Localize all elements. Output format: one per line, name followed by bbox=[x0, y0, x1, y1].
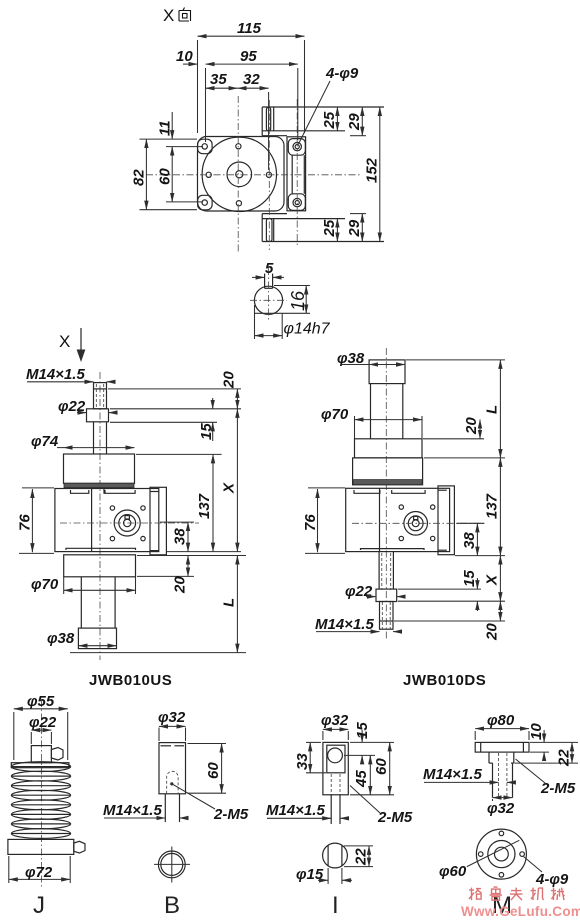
svg-text:φ55: φ55 bbox=[27, 693, 55, 710]
worm wheel housing circle bbox=[202, 137, 276, 211]
svg-text:4-φ9: 4-φ9 bbox=[535, 871, 569, 888]
gland seal hatched bbox=[353, 480, 422, 485]
svg-text:22: 22 bbox=[353, 848, 370, 866]
dim 11 left bbox=[157, 112, 174, 139]
threaded rod tip bbox=[380, 602, 394, 630]
protection tube phi74 bbox=[64, 454, 135, 483]
dim 152 right bbox=[364, 107, 381, 242]
dim phi14h7 bbox=[255, 305, 331, 339]
svg-text:M14×1.5: M14×1.5 bbox=[26, 366, 85, 383]
dim 76 left bbox=[302, 488, 345, 554]
dim phi80 bbox=[475, 712, 529, 740]
svg-text:45: 45 bbox=[353, 770, 370, 788]
dim 60 bbox=[373, 742, 390, 794]
svg-text:60: 60 bbox=[157, 168, 174, 185]
leader 2-M5 bbox=[516, 759, 576, 797]
hub stem bbox=[493, 753, 513, 798]
side window bbox=[327, 745, 345, 773]
dim phi70 bbox=[321, 406, 422, 439]
lower tube bbox=[81, 577, 115, 628]
svg-text:38: 38 bbox=[172, 528, 189, 545]
dim phi32 bbox=[158, 709, 186, 741]
svg-text:4-φ9: 4-φ9 bbox=[325, 65, 359, 82]
worm centerline bbox=[352, 522, 486, 524]
center hole bbox=[236, 171, 243, 178]
cover plate hole bottom bbox=[293, 198, 301, 206]
dim 76 left bbox=[17, 488, 54, 554]
thread exit lines below bbox=[331, 795, 340, 824]
top plate bbox=[11, 763, 69, 768]
dim phi32 bbox=[321, 712, 349, 740]
bottom cap phi38 bbox=[78, 628, 116, 649]
dim 20 lower right bbox=[172, 556, 189, 595]
collar phi22 bbox=[87, 409, 109, 422]
dim 82 left bbox=[131, 139, 197, 210]
svg-text:φ32: φ32 bbox=[487, 800, 515, 817]
dim 35 / 32 bbox=[206, 71, 269, 170]
label 4-phi9 with leader bbox=[299, 65, 359, 144]
key notch on worm bore bbox=[414, 516, 418, 519]
flange plate bbox=[475, 742, 529, 752]
screw axis centerline bbox=[385, 348, 387, 640]
label M14x1.5 bbox=[266, 802, 347, 819]
dim phi70 bbox=[31, 576, 136, 594]
svg-text:2-M5: 2-M5 bbox=[540, 780, 576, 797]
bolt hole top bbox=[236, 144, 241, 149]
svg-text:M14×1.5: M14×1.5 bbox=[103, 802, 162, 819]
centerline cover plate bbox=[296, 99, 298, 247]
svg-text:I: I bbox=[332, 892, 339, 919]
svg-text:φ80: φ80 bbox=[487, 712, 515, 729]
key bbox=[265, 274, 273, 289]
svg-text:M14×1.5: M14×1.5 bbox=[266, 802, 325, 819]
bolt hole left bbox=[206, 172, 211, 177]
bottom view flange face bbox=[476, 829, 526, 879]
cover plate hole top bbox=[293, 142, 301, 150]
hub upper bbox=[489, 752, 514, 763]
svg-text:X: X bbox=[221, 482, 238, 494]
side cover plate right bbox=[438, 486, 454, 555]
right extension lines bbox=[344, 742, 394, 794]
svg-text:152: 152 bbox=[364, 157, 381, 183]
boss bolt holes bbox=[110, 506, 114, 510]
dim phi22 bbox=[29, 714, 57, 744]
svg-text:L: L bbox=[221, 598, 238, 607]
svg-text:M14×1.5: M14×1.5 bbox=[315, 616, 374, 633]
dim phi74 bbox=[31, 433, 135, 450]
gearbox body bbox=[55, 489, 159, 552]
dim 22 bbox=[344, 846, 373, 867]
svg-text:10: 10 bbox=[176, 48, 193, 65]
dim 38 right bbox=[172, 522, 189, 552]
svg-text:60: 60 bbox=[373, 758, 390, 775]
cross hole bbox=[328, 748, 343, 763]
dim 137 right bbox=[196, 454, 213, 551]
svg-text:JWB010DS: JWB010DS bbox=[403, 672, 486, 689]
rod below collar bbox=[94, 422, 107, 454]
dim phi55 bbox=[14, 693, 68, 760]
centerline vertical main bbox=[237, 96, 239, 252]
svg-text:15: 15 bbox=[461, 570, 478, 587]
svg-text:76: 76 bbox=[17, 514, 34, 531]
svg-text:φ72: φ72 bbox=[25, 864, 53, 881]
threaded rod top bbox=[94, 383, 107, 409]
svg-text:φ38: φ38 bbox=[47, 630, 75, 647]
svg-text:φ22: φ22 bbox=[345, 583, 373, 600]
dim 45 bbox=[353, 755, 370, 794]
bolt hole bottom bbox=[236, 201, 241, 206]
dim phi22 bbox=[58, 398, 117, 415]
label M14x1.5 bbox=[26, 366, 113, 383]
svg-text:L: L bbox=[484, 405, 501, 414]
right extension lines bbox=[394, 360, 505, 621]
svg-text:J: J bbox=[33, 892, 45, 919]
upper tube bbox=[371, 384, 403, 439]
clamp screw bottom bbox=[74, 841, 85, 853]
svg-text:2-M5: 2-M5 bbox=[377, 809, 413, 826]
centerlines bbox=[268, 268, 270, 322]
svg-text:20: 20 bbox=[463, 417, 480, 435]
dim 15 right bbox=[461, 570, 478, 611]
worm boss plate bbox=[92, 489, 104, 552]
dim 115 bbox=[198, 20, 305, 133]
gland seal ring hatched bbox=[64, 483, 134, 487]
thread exit lines below bbox=[165, 794, 179, 822]
dim 25 bottom right bbox=[321, 219, 338, 242]
bottom view circle bbox=[323, 843, 348, 868]
svg-text:35: 35 bbox=[210, 71, 227, 88]
worm boss circles bbox=[114, 510, 140, 536]
upper flange phi70 bbox=[355, 439, 423, 458]
dim 38 right bbox=[461, 523, 478, 555]
svg-text:φ60: φ60 bbox=[439, 863, 467, 880]
corner hole top-left bbox=[202, 144, 207, 149]
svg-text:5: 5 bbox=[265, 260, 274, 277]
dim X right bbox=[484, 556, 501, 602]
watermark bbox=[469, 887, 565, 900]
leader phi60 bbox=[439, 840, 519, 880]
svg-text:22: 22 bbox=[556, 749, 573, 767]
svg-text:B: B bbox=[164, 892, 180, 919]
svg-text:φ74: φ74 bbox=[31, 433, 59, 450]
svg-text:95: 95 bbox=[240, 48, 257, 65]
label M14x1.5 bbox=[103, 802, 186, 819]
svg-text:2-M5: 2-M5 bbox=[213, 806, 249, 823]
keyway slot lower bbox=[266, 219, 272, 242]
side cover plate right bbox=[287, 137, 306, 211]
right extension lines bbox=[70, 389, 246, 653]
dim 16 bbox=[255, 286, 311, 314]
svg-text:φ70: φ70 bbox=[321, 406, 349, 423]
leader 4-phi9 bbox=[524, 857, 569, 889]
lower rod bbox=[379, 552, 393, 590]
svg-text:20: 20 bbox=[172, 576, 189, 594]
svg-text:JWB010US: JWB010US bbox=[89, 672, 172, 689]
worm shaft lower end bbox=[262, 214, 384, 242]
bolt hole right bbox=[266, 172, 271, 177]
lower flange phi70 bbox=[64, 555, 136, 577]
dim 29 bottom right bbox=[346, 214, 366, 242]
dim 5 bbox=[252, 260, 284, 277]
bottom view circle bbox=[154, 847, 190, 883]
dim L right bbox=[221, 556, 238, 653]
bellows folds bbox=[11, 762, 70, 839]
dim phi15 bbox=[296, 866, 352, 884]
svg-text:X: X bbox=[163, 6, 174, 25]
svg-text:φ70: φ70 bbox=[31, 576, 59, 593]
svg-text:29: 29 bbox=[346, 219, 363, 237]
dim phi38 bbox=[337, 350, 405, 367]
dim phi22 bbox=[345, 583, 404, 600]
svg-text:60: 60 bbox=[205, 762, 222, 779]
svg-text:10: 10 bbox=[528, 723, 545, 740]
bottom flange bbox=[8, 839, 74, 854]
threaded pocket hidden bbox=[167, 771, 178, 794]
worm boss circles bbox=[404, 512, 428, 536]
gearbox body bbox=[346, 488, 450, 551]
key notch on worm bore bbox=[125, 516, 129, 519]
svg-text:137: 137 bbox=[484, 493, 501, 519]
collar phi22 bbox=[376, 589, 397, 601]
dim L right bbox=[484, 360, 501, 458]
svg-text:16: 16 bbox=[288, 290, 308, 311]
svg-text:φ32: φ32 bbox=[321, 712, 349, 729]
dim 60 bbox=[188, 744, 227, 794]
corner boss bottom-left bbox=[198, 195, 213, 210]
svg-text:76: 76 bbox=[302, 514, 319, 531]
keyway slot upper bbox=[266, 108, 270, 131]
svg-text:25: 25 bbox=[321, 111, 338, 129]
clamp screw top bbox=[51, 748, 63, 761]
hidden thread lines inside bbox=[331, 774, 340, 795]
dim 33 bbox=[294, 742, 326, 772]
boss bolt holes bbox=[399, 505, 403, 509]
svg-text:38: 38 bbox=[461, 532, 478, 549]
svg-text:Www.GeLufu.Com: Www.GeLufu.Com bbox=[461, 904, 580, 919]
svg-text:X: X bbox=[484, 574, 501, 586]
dim 25 top right bbox=[321, 107, 338, 131]
svg-text:137: 137 bbox=[196, 493, 213, 519]
top collar bbox=[31, 746, 51, 763]
dim 20 upper right bbox=[463, 417, 480, 439]
svg-text:φ22: φ22 bbox=[29, 714, 57, 731]
label M14x1.5 bbox=[423, 766, 514, 783]
side cover plate right bbox=[150, 487, 166, 555]
centerline bbox=[40, 700, 42, 888]
center boss circle bbox=[227, 162, 252, 187]
svg-text:15: 15 bbox=[354, 722, 371, 739]
label M14x1.5 bbox=[315, 616, 400, 633]
svg-text:20: 20 bbox=[484, 623, 501, 641]
view direction arrow X bbox=[59, 328, 85, 362]
dim 15 bbox=[354, 722, 371, 764]
svg-text:11: 11 bbox=[157, 120, 174, 136]
screw axis centerline bbox=[99, 372, 101, 660]
svg-text:φ32: φ32 bbox=[158, 709, 186, 726]
svg-text:X: X bbox=[59, 332, 70, 351]
svg-text:15: 15 bbox=[198, 423, 215, 440]
cylinder body bbox=[159, 743, 186, 794]
dim 10 / 95 bbox=[176, 48, 298, 142]
leader 2-M5 bbox=[350, 786, 413, 827]
dim 29 top right bbox=[346, 107, 366, 136]
dim 20 top right bbox=[221, 371, 238, 409]
dim X right bbox=[221, 409, 238, 552]
svg-text:115: 115 bbox=[237, 20, 262, 37]
svg-text:32: 32 bbox=[243, 71, 260, 88]
dim 22 bbox=[515, 742, 579, 767]
dim phi32 bbox=[487, 798, 515, 817]
worm boss plate bbox=[379, 488, 381, 551]
svg-text:29: 29 bbox=[346, 113, 363, 131]
svg-text:φ14h7: φ14h7 bbox=[284, 321, 331, 338]
shaft circle bbox=[254, 286, 282, 314]
centerline worm shaft bbox=[268, 100, 270, 250]
housing plate outline bbox=[198, 137, 285, 212]
gland ring bbox=[353, 458, 423, 485]
body bbox=[323, 742, 348, 794]
dim 137 right bbox=[484, 458, 501, 556]
top cap phi38 bbox=[369, 360, 405, 384]
dim 60 left bbox=[157, 147, 204, 202]
dim phi72 bbox=[9, 856, 70, 883]
svg-text:82: 82 bbox=[131, 169, 148, 186]
svg-text:20: 20 bbox=[221, 371, 238, 389]
svg-text:25: 25 bbox=[321, 219, 338, 237]
svg-text:33: 33 bbox=[294, 753, 311, 770]
dim 20 lower right bbox=[484, 601, 501, 641]
worm centerline bbox=[60, 522, 199, 524]
worm shaft upper end bbox=[262, 107, 384, 136]
corner hole bottom-left bbox=[202, 200, 207, 205]
svg-text:M14×1.5: M14×1.5 bbox=[423, 766, 482, 783]
dim phi38 bbox=[47, 630, 117, 647]
dim 10 bbox=[528, 723, 578, 761]
corner boss top-left bbox=[198, 139, 213, 154]
set screw point with leader 2-M5 bbox=[170, 782, 249, 823]
dim 15 right bbox=[198, 398, 215, 441]
centerline horizontal bbox=[146, 174, 360, 176]
